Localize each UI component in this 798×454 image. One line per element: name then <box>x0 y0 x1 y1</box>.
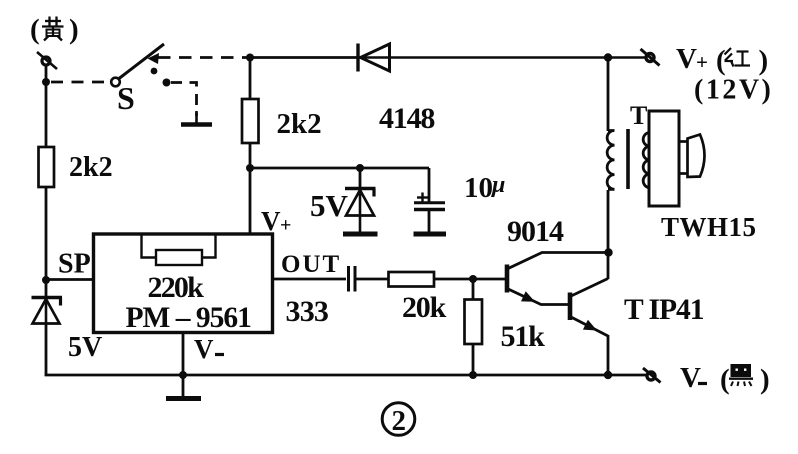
junction R4 / rail <box>469 371 477 379</box>
wire: node F horizontal <box>250 167 429 170</box>
value label 10u <box>464 172 505 204</box>
label V+ (红) <box>676 43 768 77</box>
resistor 220k (internal feedback) <box>142 235 216 265</box>
arrowhead onto switch arm <box>148 53 160 64</box>
wire: C2 to R3 <box>355 278 389 281</box>
svg-text:5V: 5V <box>68 332 102 363</box>
switch S arm <box>119 44 164 79</box>
wire: Q2 emitter down to rail <box>607 335 610 376</box>
glyph 黄 <box>42 17 64 41</box>
svg-text:(: ( <box>30 14 40 46</box>
svg-text:(: ( <box>720 364 730 396</box>
svg-text:): ) <box>69 14 79 46</box>
svg-text:10: 10 <box>464 172 493 204</box>
ground G1 (under switch) <box>181 111 212 125</box>
terminal V+ output <box>641 49 660 66</box>
transformer core <box>626 129 630 189</box>
svg-text:(12V): (12V) <box>694 75 773 106</box>
junction node B <box>246 54 254 62</box>
wire: node E down to transformer primary <box>607 58 610 132</box>
svg-text:9014: 9014 <box>507 215 564 248</box>
svg-text:PM – 9561: PM – 9561 <box>126 302 252 334</box>
diode D1 4148 <box>358 44 390 72</box>
svg-text:SP: SP <box>58 249 91 280</box>
svg-text:μ: μ <box>490 172 505 198</box>
junction SP node <box>42 276 50 284</box>
glyph 黑 black <box>729 365 753 386</box>
junction node F <box>246 164 254 172</box>
svg-text:20k: 20k <box>402 291 447 324</box>
capacitor C1 10u electrolytic <box>414 168 445 233</box>
wire: R3 to Q1 base <box>434 278 506 281</box>
resistor R4 51k <box>465 300 483 345</box>
svg-text:+: + <box>696 50 708 74</box>
svg-text:2k2: 2k2 <box>277 108 322 140</box>
pin label V+ <box>261 206 291 237</box>
svg-text:333: 333 <box>286 295 329 328</box>
svg-text:2k2: 2k2 <box>69 152 113 183</box>
transistor Q1 9014 <box>507 253 608 305</box>
resistor R3 20k (horizontal) <box>389 272 435 287</box>
svg-text:V: V <box>194 334 214 364</box>
svg-text:(: ( <box>716 45 726 77</box>
wire: node F to V+ pin of U1 <box>249 168 252 235</box>
svg-text:+: + <box>280 215 291 237</box>
wire: primary bottom down to node D <box>607 190 610 253</box>
svg-text:V: V <box>676 43 697 75</box>
glyph 红 red <box>725 48 751 67</box>
label V- (黑) <box>680 362 701 394</box>
wire: R1 to SP node <box>45 187 48 299</box>
ground G3 (under D3) <box>343 232 378 237</box>
transistor Q2 TIP41 <box>570 279 608 337</box>
wire: node C down through R4 to rail <box>472 279 475 375</box>
switch S pivot <box>111 78 120 87</box>
junction V- pin / rail <box>179 371 187 379</box>
terminal V- output <box>643 368 661 383</box>
wire dashed: lower contact to ground stub <box>171 83 197 117</box>
svg-text:): ) <box>760 364 770 396</box>
svg-text:5V: 5V <box>310 188 349 223</box>
junction Q2 emitter / rail <box>604 371 612 379</box>
svg-text:S: S <box>117 80 135 116</box>
wire: input terminal down to node A <box>45 64 48 147</box>
wire: diode to V+ terminal <box>358 56 648 59</box>
switch contact dot lower <box>163 79 171 87</box>
label (黄) yellow <box>30 14 79 46</box>
junction node C (base/51k) <box>469 275 477 283</box>
wire dashed: node A to switch pivot <box>51 81 108 84</box>
wire: V- pin to rail <box>182 333 185 377</box>
transformer secondary winding <box>643 133 649 188</box>
junction node E (V+ rail / transformer) <box>604 53 612 61</box>
zener diode D3 5V (mid) <box>345 168 376 233</box>
resistor R2 2k2 (top) <box>242 58 259 170</box>
wire: D2 to bottom rail <box>45 324 48 377</box>
terminal J1 input (yellow lead) <box>37 52 57 69</box>
junction node G <box>356 164 364 172</box>
wire: bottom rail V- <box>45 374 647 377</box>
speaker LS TWH15 body <box>649 111 679 206</box>
junction node A <box>42 78 50 86</box>
svg-text:220k: 220k <box>148 271 205 304</box>
wire dashed: arrow to node B (top rail) <box>158 56 247 59</box>
wire: node D down to Q2 collector <box>607 253 610 280</box>
wire: SP node to PM-9561 SP pin <box>45 278 94 281</box>
svg-text:V: V <box>680 362 701 394</box>
svg-text:V: V <box>261 206 281 236</box>
svg-text:): ) <box>759 45 769 77</box>
resistor R1 2k2 (left) <box>39 147 55 187</box>
wire: top rail node B to diode <box>248 56 357 59</box>
speaker cone <box>679 135 705 178</box>
capacitor C2 333 <box>349 266 356 292</box>
ground G2 (under PM-9561) <box>166 375 201 399</box>
ground G4 (under C1) <box>414 232 447 237</box>
switch contact dot upper <box>151 68 158 75</box>
transformer T primary winding <box>607 131 614 190</box>
svg-text:T: T <box>630 101 647 130</box>
junction node D (collector rail) <box>604 248 612 256</box>
pin label V- <box>194 334 214 364</box>
zener diode D2 5V (left) <box>32 298 63 324</box>
figure number circled 2 <box>382 403 415 437</box>
svg-text:51k: 51k <box>501 320 546 353</box>
svg-text:2: 2 <box>392 405 407 437</box>
svg-text:TWH15: TWH15 <box>661 212 757 242</box>
svg-text:OUT: OUT <box>281 251 341 278</box>
IC U1 PM-9561 box <box>94 234 273 333</box>
svg-text:4148: 4148 <box>379 102 434 135</box>
wire: OUT pin to C2 <box>272 278 346 281</box>
svg-text:T IP41: T IP41 <box>624 294 704 326</box>
plus mark of C1 <box>417 193 428 203</box>
